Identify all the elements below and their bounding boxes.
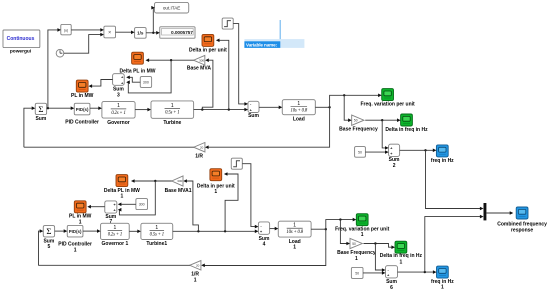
svg-text:1: 1 <box>361 232 364 238</box>
mux block <box>484 203 487 220</box>
svg-text:1: 1 <box>171 103 174 109</box>
svg-text:response: response <box>511 227 533 233</box>
svg-text:PID(s): PID(s) <box>76 107 89 112</box>
junction: turbine output to Base MVA tap <box>201 108 203 110</box>
wire: 1/R output back to Sum <box>24 146 194 148</box>
Governor 1 transfer function <box>101 223 130 239</box>
junction: error signal tap <box>47 107 49 109</box>
wire: Sum 6 to freq in Hz 1 scope <box>398 271 434 273</box>
svg-text:1: 1 <box>441 285 444 291</box>
svg-text:20: 20 <box>196 264 200 268</box>
junction: turbine1 output to Base MVA1 tap <box>197 230 199 232</box>
wire: Load output to junction <box>315 106 329 108</box>
svg-text:|u|: |u| <box>64 29 68 33</box>
step block (load step area 1) <box>222 18 233 29</box>
svg-text:50: 50 <box>352 242 356 246</box>
svg-text:1: 1 <box>194 277 197 283</box>
constant 50 (area 2) <box>351 267 363 278</box>
wire: branch up to out.ITAE <box>152 8 154 33</box>
svg-text:4: 4 <box>263 242 266 248</box>
svg-text:PID(s): PID(s) <box>69 229 82 234</box>
svg-text:Load: Load <box>293 117 305 123</box>
constant 300 <box>140 77 151 88</box>
Turbine1 transfer function <box>141 223 173 239</box>
junction: per-unit branch area 2 <box>339 218 341 220</box>
sum block Sum 4 <box>258 222 269 234</box>
scope Freq. variation per unit 1 (green) <box>356 214 368 226</box>
svg-text:1: 1 <box>293 223 296 229</box>
scope Freq. variation per unit (green) <box>382 89 394 101</box>
scope PL in MW 1 (orange) <box>74 201 86 213</box>
wire: up to Freq. variation per unit 1 scope <box>326 220 354 230</box>
powergui block (Continuous) <box>3 30 40 48</box>
gain 1/R 1 (flipped) <box>190 261 201 270</box>
wire: feedback down to 1/R 1 gain <box>204 229 326 265</box>
svg-text:1: 1 <box>297 101 300 107</box>
wire: 1/R 1 output back to Sum 5 <box>39 264 190 266</box>
wire: Load 1 output to junction <box>311 228 326 230</box>
wire: integrator to display <box>146 32 157 34</box>
wire: tap up to Delta in per unit scope <box>219 40 229 109</box>
svg-text:out.ITAE: out.ITAE <box>163 6 181 11</box>
Turbine transfer function <box>151 101 194 118</box>
wire: abs to product input 1 <box>71 29 101 31</box>
wire: feedback up into Sum 5 <box>39 231 41 265</box>
abs block |u| <box>61 24 71 34</box>
svg-text:0.5s + 1: 0.5s + 1 <box>165 111 179 116</box>
wire: PID 1 to Governor 1 <box>83 230 98 232</box>
Governor transfer function <box>102 102 135 119</box>
svg-text:Base MVA: Base MVA <box>187 65 211 71</box>
svg-text:1: 1 <box>293 245 296 251</box>
sum block Sum 6 <box>386 266 398 278</box>
junction: Hz branch area 2 <box>374 242 376 244</box>
wire: Sum to PID Controller <box>47 107 72 109</box>
svg-text:1/s: 1/s <box>137 31 144 36</box>
wire: Sum 4 to Load 1 <box>270 228 276 230</box>
wire: tap up to Base MVA1 input <box>187 181 199 231</box>
integrator 1/s <box>135 28 147 39</box>
constant 300 (area 2) <box>136 199 148 210</box>
scope freq in Hz 1 (blue) <box>437 266 449 278</box>
wire: feedback down to 1/R gain <box>208 107 329 147</box>
svg-text:1: 1 <box>74 247 77 253</box>
wire: Sum 5 to PID Controller 1 <box>55 230 65 232</box>
wire: Sum 7 output to PL in MW 1 scope <box>90 206 105 208</box>
scope Delta PL in MW (orange) <box>132 52 144 64</box>
svg-text:Delta in freq in Hz: Delta in freq in Hz <box>380 253 423 259</box>
PID Controller 1 block <box>67 225 83 237</box>
scope Delta PL in MW 1 (orange) <box>116 175 128 187</box>
wire: Base Frequency 1 to Delta in freq in Hz 1 scope <box>364 244 393 248</box>
svg-text:50: 50 <box>358 150 362 154</box>
wire: Base Frequency to Delta in freq in Hz scope <box>365 119 398 121</box>
Load transfer function <box>282 100 315 115</box>
svg-text:PL in MW: PL in MW <box>71 93 94 99</box>
PID Controller block <box>74 103 90 115</box>
sum block Sum (area 1 right) <box>248 101 259 112</box>
svg-text:Turbine: Turbine <box>163 120 181 126</box>
svg-text:50: 50 <box>354 119 358 123</box>
svg-text:Delta in freq in Hz: Delta in freq in Hz <box>385 127 428 133</box>
wire: PID to Governor <box>90 107 99 109</box>
svg-text:Freq. variation per unit: Freq. variation per unit <box>361 102 416 108</box>
constant 50 (area 1) <box>355 147 366 158</box>
svg-text:6: 6 <box>390 285 393 291</box>
svg-text:1/R: 1/R <box>195 154 203 160</box>
svg-text:10s + 0.8: 10s + 0.8 <box>291 108 308 113</box>
junction: Hz branch <box>381 119 383 121</box>
svg-text:Sum: Sum <box>35 116 46 122</box>
svg-text:Delta PL in MW: Delta PL in MW <box>119 68 155 74</box>
sum block Sum 5 (round sigma) <box>43 226 54 237</box>
To-Workspace out.ITAE <box>155 2 189 13</box>
svg-text:1: 1 <box>114 225 117 231</box>
gain Base MVA1 (flipped) <box>172 176 183 186</box>
wire: down-around into Sum 3 lower input <box>128 60 171 93</box>
svg-text:50: 50 <box>355 272 359 276</box>
svg-text:0.2s + 1: 0.2s + 1 <box>111 111 125 116</box>
svg-text:Delta in per unit: Delta in per unit <box>189 47 227 53</box>
wire: mux to Combined frequency response scope <box>486 212 510 214</box>
svg-text:0.0005757: 0.0005757 <box>171 30 193 36</box>
svg-text:10s + 0.8: 10s + 0.8 <box>286 230 303 235</box>
wire: Sum 3 output to PL in MW scope <box>92 80 113 87</box>
wire: down-around into Sum 7 lower input <box>119 181 155 215</box>
wire: down into Base Frequency 1 gain <box>340 220 347 244</box>
wire: constant 300 to Sum 3 upper input <box>129 77 140 82</box>
svg-text:Continuous: Continuous <box>7 36 35 42</box>
wire: up to Mux bottom input <box>425 217 481 273</box>
svg-text:1: 1 <box>214 189 217 195</box>
wire: constant 50 into Sum 6 bottom input <box>363 272 383 274</box>
wire: Sum 2 to freq in Hz scope <box>400 149 434 151</box>
svg-text:3: 3 <box>117 93 120 99</box>
gain 1/R (flipped) <box>194 143 205 152</box>
product block <box>104 26 116 38</box>
svg-text:Sum: Sum <box>248 113 259 119</box>
wire: constant 50 into Sum 2 bottom input <box>365 151 385 153</box>
svg-text:300: 300 <box>139 202 145 206</box>
junction: area-1 Hz output <box>424 149 426 151</box>
junction: load frequency signal <box>328 106 330 108</box>
svg-text:5: 5 <box>48 244 51 250</box>
wire: Governor to Turbine <box>135 109 148 111</box>
svg-text:Base Frequency: Base Frequency <box>339 127 378 133</box>
step block (load step area 2) <box>231 158 242 169</box>
svg-text:20: 20 <box>200 145 204 149</box>
sum block Sum 2 <box>389 144 400 156</box>
svg-text:1: 1 <box>117 103 120 109</box>
svg-text:freq in Hz: freq in Hz <box>431 158 454 164</box>
wire: Governor 1 to Turbine1 <box>129 230 138 232</box>
junction: per-unit branch <box>343 94 345 96</box>
scope PL in MW (orange) <box>76 80 88 92</box>
svg-text:Σ: Σ <box>38 104 43 114</box>
wire: down into Sum 2 top input <box>382 120 386 148</box>
junction: Base MVA output <box>170 59 172 61</box>
wire: feedback up into Sum <box>24 108 33 147</box>
svg-text:Σ: Σ <box>46 226 51 236</box>
junction: area-2 Hz output <box>424 271 426 273</box>
wire: down into Base Frequency gain <box>344 95 349 120</box>
display 0.0005757 <box>160 27 195 38</box>
sum block Sum 7 (flipped) <box>105 201 117 213</box>
svg-text:Base MVA1: Base MVA1 <box>165 188 192 194</box>
wire: Sum to Load <box>259 106 280 108</box>
wire: step 1 down into Sum 4 top input <box>242 164 255 227</box>
svg-text:Governor: Governor <box>107 120 130 126</box>
scope Delta in per unit (orange) <box>202 34 214 46</box>
gain Base MVA (flipped) <box>194 55 205 65</box>
svg-text:1: 1 <box>355 256 358 262</box>
wire: tap up to Delta in per unit 1 scope <box>225 174 238 231</box>
wire: Turbine1 to Sum 4 bottom input <box>173 230 256 232</box>
junction: area-2 frequency signal <box>325 228 327 230</box>
wire: constant 300 to Sum 7 upper input <box>121 203 136 205</box>
clock <box>56 49 64 57</box>
svg-text:300: 300 <box>143 80 149 84</box>
wire: down into Sum 6 top input <box>375 244 382 271</box>
svg-text:PID Controller: PID Controller <box>65 119 99 125</box>
sum block Sum 3 (flipped) <box>113 74 125 86</box>
wire: step down into Sum top input <box>233 24 245 104</box>
svg-text:1: 1 <box>155 225 158 231</box>
variable-name tooltip overlay <box>279 20 281 41</box>
scope Combined frequency response (blue) <box>516 207 528 219</box>
svg-text:Governor 1: Governor 1 <box>102 241 129 247</box>
scope Delta in freq in Hz 1 (green) <box>395 241 407 253</box>
wire: tap up to Base MVA input <box>202 60 213 109</box>
wire: down to Mux top input <box>426 150 481 208</box>
gain Base Frequency <box>352 115 364 125</box>
svg-text:0.5s + 1: 0.5s + 1 <box>150 232 164 237</box>
sum block Sum (area 1, round sigma) <box>35 103 46 114</box>
junction: integrator output <box>152 32 154 34</box>
scope Delta in freq in Hz (green) <box>401 114 413 126</box>
gain Base Frequency 1 <box>350 238 362 248</box>
junction: turbine1 output to scope tap <box>224 230 226 232</box>
svg-text:1: 1 <box>400 260 403 266</box>
wire: up to Freq. variation per unit scope <box>330 95 379 107</box>
svg-text:1: 1 <box>79 220 82 226</box>
svg-text:2: 2 <box>393 163 396 169</box>
wire: error tap up to abs input <box>48 30 58 108</box>
svg-text:1: 1 <box>121 194 124 200</box>
scope Delta in per unit 1 (orange) <box>210 169 222 181</box>
wire: clock to product input 2 <box>64 35 101 54</box>
svg-text:300: 300 <box>177 179 182 183</box>
svg-text:300: 300 <box>199 58 204 62</box>
svg-text:×: × <box>108 30 111 36</box>
wire: Base MVA1 output to Delta PL in MW 1 scope <box>133 180 172 182</box>
wire: Base MVA output to Delta PL in MW scope <box>149 59 194 61</box>
wire: product to integrator <box>116 31 132 33</box>
Load 1 transfer function <box>278 221 311 237</box>
svg-text:Turbine1: Turbine1 <box>146 241 167 247</box>
svg-text:Variable name:: Variable name: <box>246 43 278 48</box>
svg-text:0.2s + 1: 0.2s + 1 <box>108 232 122 237</box>
svg-text:powergui: powergui <box>10 49 31 55</box>
junction: turbine output to scope tap <box>228 108 230 110</box>
junction: Base MVA1 output <box>154 180 156 182</box>
scope freq in Hz (blue) <box>436 145 448 157</box>
wire: Turbine to Sum (bottom input) <box>194 109 246 111</box>
